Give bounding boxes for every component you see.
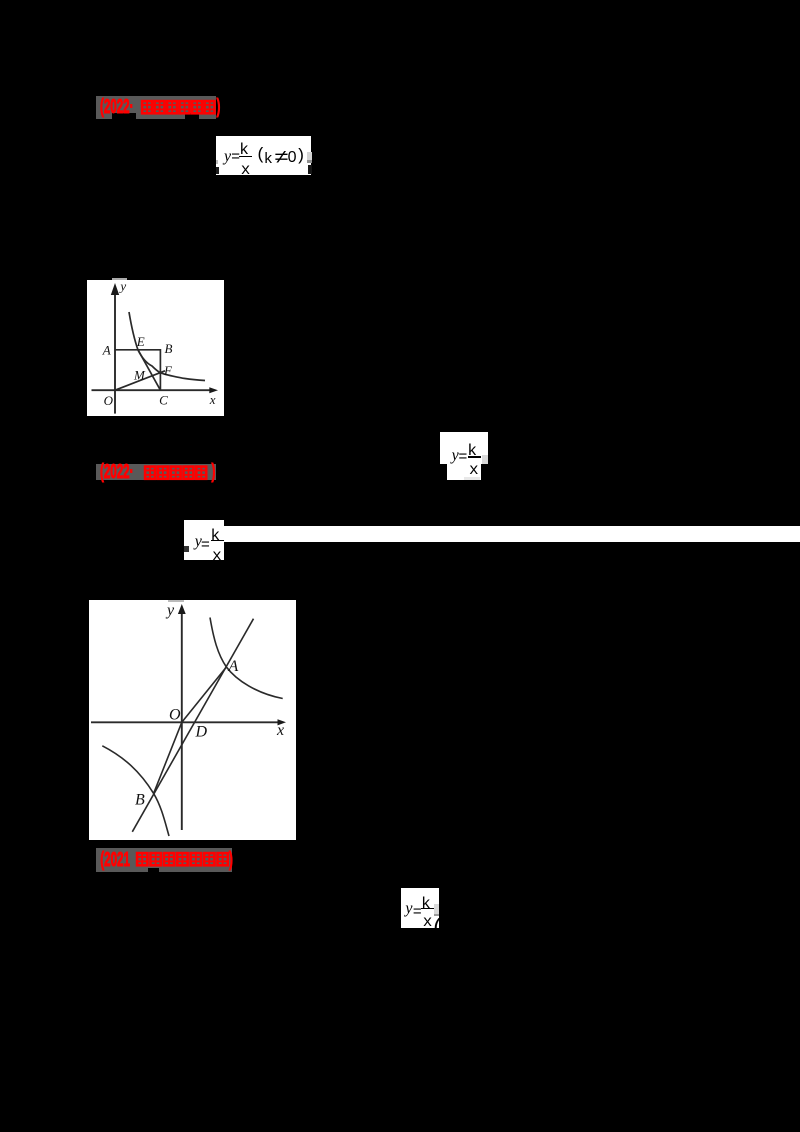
svg-text:A: A (228, 658, 239, 675)
formula 4 right gray artifact (434, 914, 440, 917)
formula 4 box (401, 888, 440, 929)
hyperbola first quadrant (210, 618, 283, 699)
x axis arrowhead (209, 387, 218, 393)
header 1 highlight band (96, 96, 216, 119)
svg-text:(2022·: (2022· (100, 461, 133, 483)
figure 1 drawing (88, 278, 224, 417)
svg-text:y: y (165, 602, 175, 619)
svg-text:A: A (102, 343, 111, 358)
header 2 highlight band (96, 464, 216, 480)
formula 2 content y=k/x (440, 432, 488, 480)
formula 3 content y=k/x (184, 520, 224, 560)
formula 2 right light artifact (482, 455, 488, 464)
svg-text:C: C (159, 392, 168, 407)
figure 1 background (87, 280, 224, 416)
svg-text:B: B (165, 341, 173, 356)
y axis arrowhead (178, 604, 186, 614)
header 3 highlight band (96, 848, 232, 872)
x axis (92, 389, 212, 391)
formula 3 box (184, 520, 224, 560)
line O to B (154, 722, 182, 793)
y axis arrowhead (111, 283, 119, 295)
formula 1 right light artifact (307, 152, 312, 161)
svg-text:): ) (229, 849, 233, 871)
hyperbola third quadrant (102, 746, 169, 836)
svg-text:M: M (133, 368, 146, 383)
formula 1 right black squiggle (308, 165, 312, 174)
svg-text:O: O (104, 393, 114, 408)
formula 3 dark artifact bottom-left (184, 546, 189, 552)
formula 4 content y=k/x with partial paren (401, 888, 440, 929)
svg-text:(2022·: (2022· (100, 96, 133, 118)
line E to C (138, 350, 160, 390)
rectangle OABC top and right edges (115, 350, 160, 390)
figure 1 top gray tab (112, 278, 127, 280)
line O to A (182, 667, 227, 722)
figure 2 top gray tab (168, 600, 184, 602)
svg-text:): ) (217, 96, 221, 118)
y axis (181, 611, 183, 830)
line B to A extended (through D) (132, 619, 253, 832)
x axis (91, 721, 279, 723)
header 1 highlight notch right (185, 113, 199, 120)
svg-text:E: E (136, 334, 145, 349)
svg-text:x: x (209, 392, 216, 407)
svg-text:F: F (163, 363, 173, 378)
svg-text:D: D (195, 724, 208, 741)
y axis (114, 290, 116, 414)
header 2 red text (2022·□□□□□) (95, 461, 230, 483)
line O to F (115, 371, 165, 390)
formula 2 bottom light artifact (464, 477, 480, 480)
header 1 highlight notch left (112, 113, 136, 120)
header 3 red text (2021 □□□□□□□) (95, 849, 240, 871)
svg-text:y: y (118, 279, 126, 294)
formula 1 left gray artifact (216, 160, 218, 165)
formula 1 content (216, 136, 312, 175)
formula 1 right dark artifact (307, 160, 312, 163)
formula 2 box main (440, 432, 488, 464)
svg-text:x: x (276, 722, 284, 739)
header 1 red text (2022·□□□□□□) (95, 92, 230, 120)
formula 1 left black specks (216, 167, 219, 174)
formula 1 box: y=k/x (k≠0) (216, 136, 312, 175)
figure 2 drawing (89, 598, 296, 840)
svg-text:(2021: (2021 (100, 849, 130, 871)
svg-text:): ) (212, 461, 216, 483)
x axis arrowhead (278, 719, 287, 725)
svg-text:O: O (169, 707, 181, 724)
figure 2 background (89, 600, 296, 840)
svg-text:B: B (135, 792, 145, 809)
formula 2 box lower tab (447, 464, 481, 480)
long white strip (222, 526, 800, 542)
formula 4 right light artifact (434, 904, 440, 913)
header 3 bottom notch (148, 868, 159, 872)
hyperbola branch (129, 312, 205, 381)
